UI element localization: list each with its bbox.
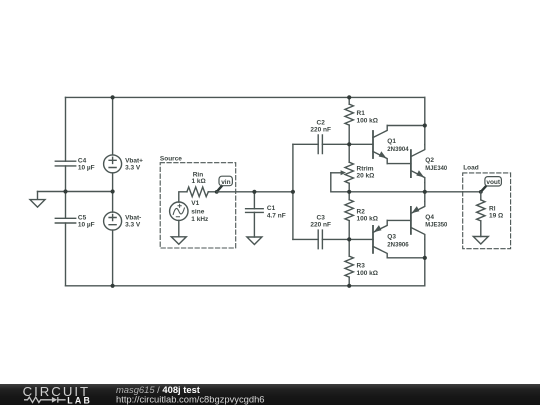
wire branch to C3 (293, 238, 318, 240)
label C2 (310, 119, 331, 133)
wire R2 top lead (348, 192, 350, 200)
label Rin (192, 171, 206, 185)
wire node B2 to Q3 base (349, 238, 373, 240)
svg-text:Q4: Q4 (425, 214, 434, 221)
wire Q1 collector (387, 125, 425, 127)
svg-text:C5: C5 (78, 215, 87, 222)
svg-text:Source: Source (160, 156, 182, 163)
wire branch vertical (292, 144, 294, 239)
wire Vbat bottom (112, 230, 114, 286)
label R1 (357, 110, 378, 124)
transistor Q1 (373, 126, 387, 164)
svg-text:MJE350: MJE350 (425, 222, 447, 229)
wire C3 to node B2 (322, 238, 349, 240)
ground V1 (171, 237, 186, 245)
wire R3 top lead (348, 239, 350, 256)
label R3 (357, 263, 378, 277)
wire C2 to node B1 (322, 143, 349, 145)
wire Q2 emitter down (424, 183, 426, 192)
wire V1 to Rin (179, 192, 187, 202)
svg-text:Load: Load (463, 165, 479, 172)
svg-text:100 kΩ: 100 kΩ (357, 216, 378, 223)
svg-text:Vbat-: Vbat- (125, 215, 141, 222)
label Q3 (387, 234, 409, 249)
wire vin to branch (217, 191, 293, 193)
wire Q3 emitter to Q4 base (387, 219, 411, 221)
transistor Q4 (411, 201, 425, 239)
svg-text:R2: R2 (357, 208, 366, 215)
svg-text:Q1: Q1 (387, 138, 396, 145)
svg-text:http://circuitlab.com/c8bgzpvy: http://circuitlab.com/c8bgzpvycgdh6 (116, 394, 265, 405)
svg-text:Vbat+: Vbat+ (125, 158, 143, 165)
wire Rl top lead (480, 192, 482, 200)
node vin flag (215, 176, 233, 194)
capacitor C2 (318, 135, 322, 154)
svg-text:220 nF: 220 nF (310, 222, 331, 229)
wire output (425, 191, 481, 193)
svg-text:vin: vin (221, 179, 230, 186)
label V1 (191, 200, 209, 223)
wire R2 bottom lead (348, 221, 350, 240)
svg-text:20 kΩ: 20 kΩ (357, 173, 375, 180)
svg-text:vout: vout (486, 179, 501, 186)
svg-text:C3: C3 (317, 214, 326, 221)
svg-text:R3: R3 (357, 263, 366, 270)
svg-text:2N3904: 2N3904 (387, 146, 409, 153)
svg-text:Q3: Q3 (387, 234, 396, 241)
wire Rin to vin node (208, 191, 216, 193)
svg-text:4.7 nF: 4.7 nF (267, 213, 286, 220)
wire branch to C2 (293, 143, 318, 145)
label R2 (357, 208, 378, 222)
ground C1 (247, 237, 262, 245)
wire R1 bottom lead (348, 125, 350, 144)
resistor R1 (345, 104, 353, 125)
svg-text:LAB: LAB (67, 395, 92, 405)
label Q1 (387, 138, 409, 153)
wire feedback (349, 191, 425, 193)
svg-text:C4: C4 (78, 157, 87, 164)
label Rtrim (357, 165, 375, 179)
voltage source Vbat- (104, 212, 122, 230)
wire middle left (38, 191, 113, 193)
svg-text:10 µF: 10 µF (78, 222, 95, 229)
transistor Q2 (411, 145, 425, 183)
wire bottom rail (66, 285, 425, 287)
label vin (221, 179, 230, 186)
label Q4 (425, 214, 447, 229)
svg-text:R1: R1 (357, 110, 366, 117)
wire V1 ground stub (178, 220, 180, 236)
wire C1 ground stub (253, 212, 255, 237)
node vout flag (479, 177, 502, 194)
capacitor C5 (55, 218, 75, 223)
wire Vbat middle (112, 173, 114, 212)
svg-text:Q2: Q2 (425, 157, 434, 164)
svg-text:sine: sine (191, 208, 204, 215)
wire Q1 emitter to Q2 base (387, 163, 411, 165)
label Vbat- (125, 215, 141, 229)
svg-text:19 Ω: 19 Ω (489, 213, 503, 220)
svg-text:Rl: Rl (489, 206, 496, 213)
box Load dashed (463, 173, 511, 249)
svg-text:100 kΩ: 100 kΩ (357, 117, 378, 124)
footer bar (0, 384, 540, 405)
svg-text:C1: C1 (267, 205, 276, 212)
label C4 (78, 157, 95, 171)
wire C1 stub (253, 192, 255, 209)
svg-text:Rtrim: Rtrim (357, 165, 374, 172)
label vout (486, 179, 501, 186)
svg-text:3.3 V: 3.3 V (125, 165, 141, 172)
svg-text:2N3906: 2N3906 (387, 241, 409, 248)
resistor Rl (477, 200, 485, 221)
wire Q3 collector (387, 257, 425, 259)
svg-text:100 kΩ: 100 kΩ (357, 270, 378, 277)
potentiometer Rtrim (331, 162, 354, 192)
wire left rail lower (65, 223, 67, 286)
label Vbat+ (125, 158, 143, 172)
label C5 (78, 215, 95, 229)
label Source (160, 156, 182, 163)
resistor R3 (345, 256, 353, 277)
wire top rail (66, 96, 425, 98)
footer title text (116, 384, 200, 395)
logo resistor-diode squiggle (24, 397, 66, 403)
wire left rail upper (65, 97, 67, 161)
wire left rail middle (65, 166, 67, 218)
svg-text:10 µF: 10 µF (78, 164, 95, 171)
wire Q4 emitter up (424, 192, 426, 202)
svg-text:MJE340: MJE340 (425, 165, 447, 172)
logo CIRCUIT text (23, 384, 90, 399)
capacitor C4 (55, 161, 75, 166)
voltage source Vbat+ (104, 155, 122, 173)
ground main (30, 192, 45, 208)
resistor R2 (345, 200, 353, 221)
label C1 (267, 205, 286, 219)
svg-text:220 nF: 220 nF (310, 127, 331, 134)
wire right rail top (424, 97, 426, 144)
ground Rl (473, 237, 488, 245)
svg-text:V1: V1 (191, 200, 199, 207)
resistor Rin (187, 187, 208, 197)
label Rl (489, 206, 503, 220)
svg-text:1 kΩ: 1 kΩ (192, 178, 206, 185)
label Load (463, 165, 479, 172)
voltage source V1 (170, 202, 188, 220)
svg-text:C2: C2 (317, 119, 326, 126)
wire Vbat top (112, 97, 114, 154)
transistor Q3 (373, 220, 387, 257)
box Source dashed (160, 163, 236, 248)
label Q2 (425, 157, 447, 172)
capacitor C1 (246, 209, 264, 213)
wire node B1 to Q1 base (349, 143, 373, 145)
footer url text (116, 394, 265, 405)
svg-text:1 kHz: 1 kHz (191, 216, 209, 223)
wire Rl ground stub (480, 221, 482, 237)
wire Rtrim bottom lead (348, 183, 350, 192)
capacitor C3 (318, 230, 322, 249)
wire R1 top lead (348, 97, 350, 104)
wire Q4 collector down (424, 239, 426, 285)
wire R3 bottom lead (348, 277, 350, 286)
wire Rtrim top lead (348, 144, 350, 162)
label C3 (310, 214, 331, 228)
svg-text:3.3 V: 3.3 V (125, 222, 141, 229)
logo LAB text (67, 395, 92, 405)
